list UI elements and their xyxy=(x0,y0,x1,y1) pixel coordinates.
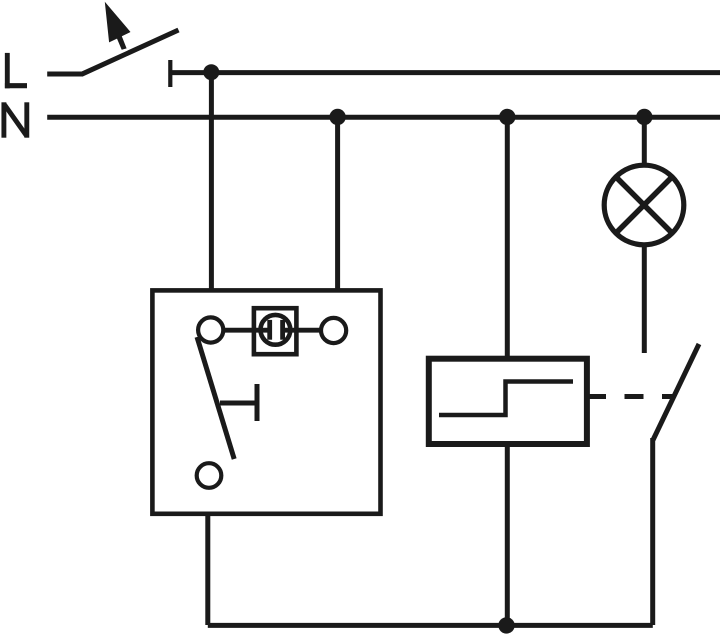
wire bottom bus xyxy=(208,623,653,628)
terminal circle bottom xyxy=(197,463,222,488)
node N junction 3 xyxy=(636,109,652,125)
node bottom junction xyxy=(498,617,514,633)
wire L drop to pushbutton unit xyxy=(209,73,214,293)
lamp E1 xyxy=(604,165,684,245)
terminal circle top-right xyxy=(321,318,346,343)
label N xyxy=(4,102,27,137)
wire N drop to pushbutton unit xyxy=(335,117,340,292)
glow lamp circle xyxy=(261,315,291,345)
wire N drop to lamp E1 xyxy=(642,117,647,167)
wire N bus xyxy=(47,115,720,120)
relay K1 step-function symbol xyxy=(439,382,573,416)
glow lamp lead left xyxy=(223,328,268,333)
relay contact blade xyxy=(653,344,699,440)
wire L bus xyxy=(170,70,720,75)
glow lamp lead right xyxy=(285,328,321,333)
wire L feed stub xyxy=(47,72,83,77)
pushbutton unit box xyxy=(152,290,380,513)
wire lamp E1 to contact xyxy=(642,243,647,353)
glow lamp square xyxy=(254,308,297,354)
switch S1 fixed contact bar xyxy=(168,60,172,87)
wire contact to bottom bus xyxy=(650,438,655,625)
relay K1 box xyxy=(429,359,587,444)
glow lamp electrode right xyxy=(280,320,285,340)
switch S1 blade xyxy=(82,30,179,74)
node L junction xyxy=(203,64,219,80)
label L xyxy=(5,53,27,88)
node N junction 2 xyxy=(499,109,515,125)
glow lamp electrode left xyxy=(267,320,272,340)
node N junction 1 xyxy=(329,109,345,125)
pushbutton actuator stem xyxy=(220,401,257,406)
wire N drop to relay K1 xyxy=(505,117,510,361)
terminal circle top-left xyxy=(198,317,223,342)
wire relay K1 to bottom bus xyxy=(505,442,510,625)
mechanical link (dashed) xyxy=(590,394,675,399)
pushbutton blade xyxy=(197,337,234,459)
manual actuation arrow xyxy=(105,2,131,50)
pushbutton actuator bar xyxy=(255,384,260,421)
wire pushbutton unit to bottom bus xyxy=(205,512,210,625)
